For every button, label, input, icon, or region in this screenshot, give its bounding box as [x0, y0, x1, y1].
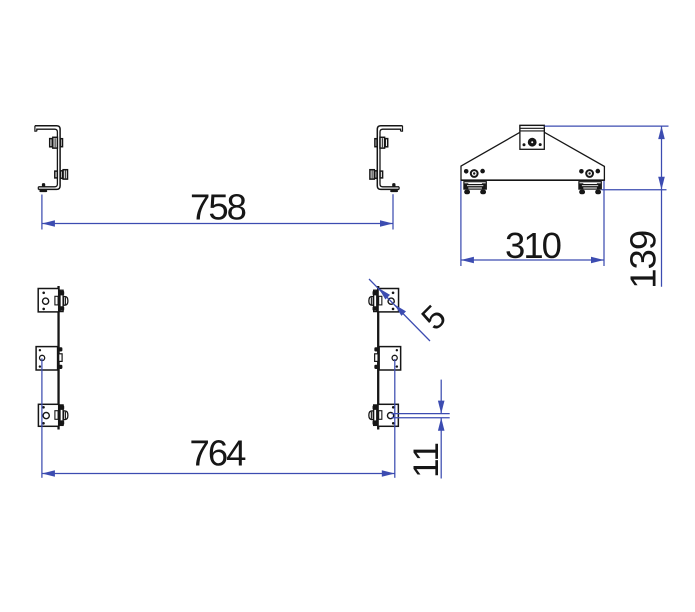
svg-text:764: 764: [190, 432, 247, 473]
svg-text:758: 758: [190, 186, 246, 227]
svg-text:11: 11: [407, 443, 446, 478]
svg-text:139: 139: [623, 231, 664, 289]
svg-text:310: 310: [505, 225, 561, 266]
